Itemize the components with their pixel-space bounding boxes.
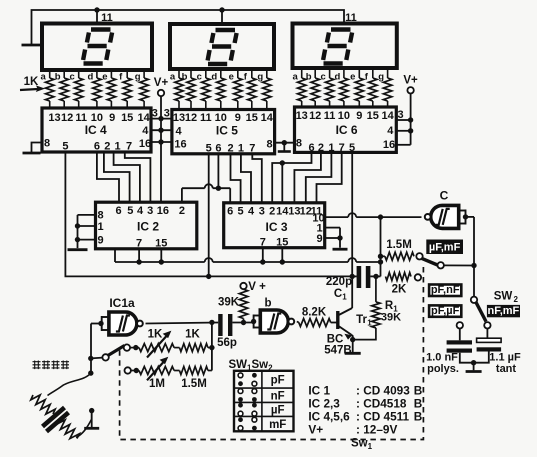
svg-text:13: 13 [296, 110, 308, 122]
svg-text:IC 6: IC 6 [336, 123, 358, 137]
svg-text:2K: 2K [392, 284, 407, 296]
svg-text:9: 9 [109, 112, 115, 124]
svg-text:1: 1 [367, 319, 372, 328]
svg-text:IC1a: IC1a [109, 296, 135, 310]
svg-text:7: 7 [339, 142, 345, 154]
svg-text:1: 1 [342, 293, 347, 302]
svg-text:4: 4 [137, 205, 144, 217]
svg-text:7: 7 [136, 238, 142, 250]
svg-text:pF,nF: pF,nF [431, 284, 460, 296]
svg-text:14: 14 [137, 112, 150, 124]
svg-text:1: 1 [328, 142, 334, 154]
svg-text:220p: 220p [326, 276, 352, 288]
svg-text:e: e [102, 72, 107, 83]
svg-text:1.5M: 1.5M [181, 378, 207, 390]
svg-text:V+: V+ [403, 75, 418, 87]
svg-text:2: 2 [514, 295, 519, 304]
svg-text:3: 3 [152, 108, 158, 120]
svg-text:mF: mF [269, 419, 286, 431]
svg-text:pF,µF: pF,µF [431, 305, 460, 317]
svg-text:3: 3 [147, 205, 153, 217]
svg-text:IC 1: IC 1 [308, 383, 330, 397]
svg-text:µF,mF: µF,mF [429, 242, 461, 254]
svg-text:: CD4518: : CD4518 [356, 396, 407, 410]
svg-text:C: C [334, 288, 342, 300]
svg-text:1: 1 [97, 221, 103, 233]
svg-text:b: b [264, 298, 271, 310]
svg-text:polys.: polys. [427, 363, 459, 375]
svg-text:a: a [293, 72, 299, 83]
svg-text:B: B [414, 409, 423, 423]
svg-text:2: 2 [179, 205, 185, 217]
svg-text:9: 9 [235, 112, 241, 124]
svg-text:16: 16 [139, 138, 151, 150]
svg-text:8: 8 [44, 138, 50, 150]
svg-text:: CD 4093: : CD 4093 [356, 383, 410, 397]
svg-text:12: 12 [309, 110, 321, 122]
svg-text:SW: SW [494, 291, 513, 303]
svg-text:2: 2 [318, 142, 324, 154]
svg-text:14: 14 [261, 112, 274, 124]
svg-text:d: d [334, 72, 340, 83]
svg-text:pF: pF [271, 375, 285, 387]
svg-text:tant: tant [496, 363, 517, 375]
svg-text:c: c [320, 72, 325, 83]
svg-text:c: c [70, 72, 75, 83]
svg-text:11: 11 [324, 110, 336, 122]
svg-text:8.2K: 8.2K [302, 307, 327, 319]
svg-text:4: 4 [248, 206, 255, 218]
svg-text:10: 10 [215, 112, 227, 124]
svg-text:8: 8 [266, 139, 272, 151]
svg-text:b: b [182, 72, 188, 83]
svg-text:4: 4 [142, 125, 149, 137]
svg-text:12: 12 [61, 112, 73, 124]
svg-text:16: 16 [157, 205, 169, 217]
svg-text:3: 3 [164, 108, 170, 120]
svg-text:b: b [306, 72, 312, 83]
svg-text:b: b [55, 72, 61, 83]
svg-text:6: 6 [116, 205, 122, 217]
svg-text:V +: V + [248, 281, 266, 293]
svg-text:6: 6 [94, 141, 100, 153]
svg-text:8: 8 [296, 138, 302, 150]
svg-text:V+: V+ [308, 422, 323, 436]
svg-text:: CD 4511: : CD 4511 [356, 409, 410, 423]
svg-text:6: 6 [215, 143, 221, 155]
svg-text:1.5M: 1.5M [386, 239, 412, 251]
svg-text:9: 9 [316, 233, 322, 245]
svg-text:39K: 39K [218, 297, 240, 309]
svg-text:B: B [414, 383, 423, 397]
svg-text:d: d [87, 72, 93, 83]
svg-text:12: 12 [185, 112, 197, 124]
svg-text:15: 15 [246, 112, 258, 124]
svg-text:IC 2,3: IC 2,3 [308, 396, 340, 410]
svg-text:6: 6 [227, 206, 233, 218]
svg-text:: 12–9V: : 12–9V [356, 422, 397, 436]
svg-text:a: a [170, 72, 176, 83]
svg-text:1K: 1K [185, 329, 200, 341]
svg-text:e: e [229, 72, 234, 83]
svg-text:µF: µF [271, 404, 285, 416]
svg-text:C: C [440, 189, 449, 203]
svg-text:5: 5 [349, 142, 355, 154]
svg-text:15: 15 [367, 110, 379, 122]
svg-text:13: 13 [173, 112, 185, 124]
svg-text:11: 11 [200, 112, 212, 124]
svg-text:2: 2 [104, 141, 110, 153]
svg-text:4: 4 [175, 126, 182, 138]
svg-text:5: 5 [238, 206, 244, 218]
svg-text:4: 4 [387, 125, 394, 137]
svg-text:V+: V+ [154, 77, 169, 89]
svg-text:B: B [414, 396, 423, 410]
svg-text:nF,mF: nF,mF [488, 305, 520, 317]
svg-text:16: 16 [174, 139, 186, 151]
svg-text:9: 9 [356, 110, 362, 122]
svg-text:39K: 39K [381, 312, 401, 324]
svg-text:7: 7 [126, 141, 132, 153]
svg-text:IC 4: IC 4 [85, 123, 107, 137]
svg-text:16: 16 [383, 139, 395, 151]
svg-text:14: 14 [381, 110, 394, 122]
svg-text:5: 5 [127, 205, 133, 217]
svg-text:1.0 nF: 1.0 nF [426, 352, 458, 364]
svg-text:6: 6 [308, 142, 314, 154]
svg-text:1: 1 [114, 141, 120, 153]
svg-text:1K: 1K [148, 329, 163, 341]
svg-text:15: 15 [276, 237, 288, 249]
svg-text:IC 5: IC 5 [216, 124, 238, 138]
svg-text:10: 10 [338, 110, 350, 122]
svg-text:g: g [257, 72, 263, 83]
svg-text:56p: 56p [217, 337, 237, 349]
svg-text:5: 5 [62, 141, 68, 153]
svg-text:Tr: Tr [356, 314, 367, 326]
svg-text:a: a [41, 72, 47, 83]
svg-text:5: 5 [206, 143, 212, 155]
svg-text:3: 3 [259, 206, 265, 218]
svg-text:nF: nF [271, 390, 285, 402]
svg-text:c: c [197, 72, 202, 83]
svg-text:7: 7 [249, 143, 255, 155]
svg-text:7: 7 [260, 237, 266, 249]
svg-text:IC 3: IC 3 [265, 220, 287, 234]
svg-text:8: 8 [97, 210, 103, 222]
svg-text:1.1 µF: 1.1 µF [489, 352, 521, 364]
svg-text:1: 1 [238, 143, 244, 155]
svg-text:2: 2 [227, 143, 233, 155]
svg-text:IC 2: IC 2 [137, 220, 159, 234]
svg-text:9: 9 [97, 235, 103, 247]
svg-text:13: 13 [48, 112, 60, 124]
svg-text:547B: 547B [324, 345, 352, 357]
svg-text:e: e [350, 72, 355, 83]
svg-text:15: 15 [121, 112, 133, 124]
svg-text:1M: 1M [149, 378, 165, 390]
svg-text:g: g [135, 72, 141, 83]
svg-text:2: 2 [269, 206, 275, 218]
svg-text:d: d [211, 72, 217, 83]
svg-text:15: 15 [155, 238, 167, 250]
svg-text:IC 4,5,6: IC 4,5,6 [308, 409, 350, 423]
svg-text:g: g [378, 72, 384, 83]
